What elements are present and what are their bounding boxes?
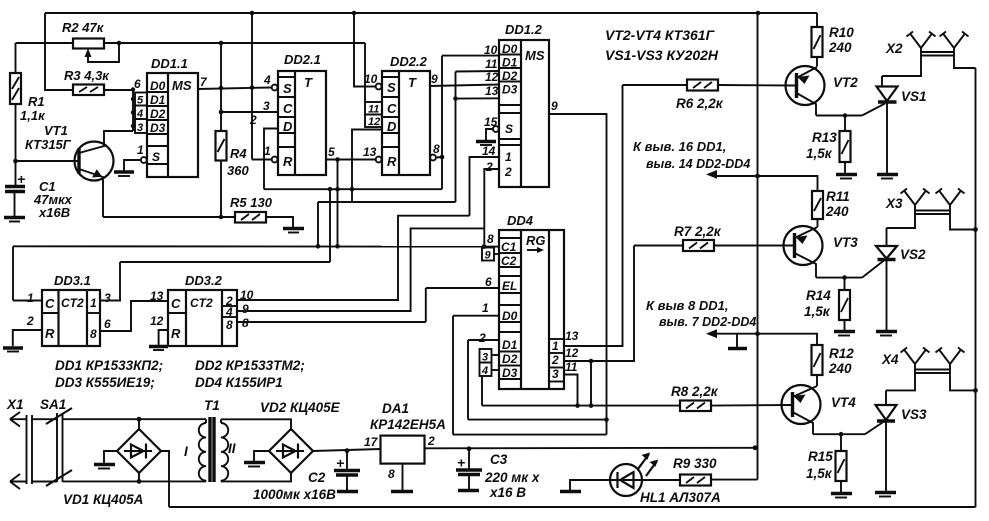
resistor R11 240 [812, 191, 823, 227]
resistor R14 1.5k [839, 278, 850, 330]
svg-text:C: C [387, 101, 397, 116]
pin 1 DD2.1 [264, 144, 278, 162]
svg-text:T: T [408, 75, 417, 90]
node: VD1 bottom tap [137, 479, 142, 484]
svg-text:1: 1 [264, 144, 271, 158]
pin 8 DD4 [487, 232, 494, 246]
pin 3 box DD1.1 [135, 119, 147, 134]
svg-text:D: D [283, 119, 293, 134]
svg-text:X1: X1 [6, 397, 24, 412]
node: C2 tap [345, 448, 350, 453]
svg-text:9: 9 [242, 302, 249, 316]
svg-text:10: 10 [484, 43, 498, 57]
svg-text:R: R [387, 154, 397, 169]
svg-text:11: 11 [485, 57, 498, 71]
ground: R14 [834, 332, 855, 336]
node: out2 junction [589, 359, 594, 364]
svg-text:6: 6 [485, 275, 492, 289]
svg-text:1: 1 [27, 291, 34, 305]
wire: clock bus into C1 [482, 244, 499, 249]
LED HL1 [610, 453, 658, 497]
svg-text:R: R [283, 154, 293, 169]
svg-text:R: R [171, 326, 181, 341]
svg-text:R15: R15 [808, 449, 833, 464]
svg-text:D1: D1 [502, 56, 518, 70]
svg-text:+: + [457, 455, 465, 471]
svg-text:DD3.1: DD3.1 [54, 273, 91, 288]
label DA1 [370, 401, 446, 432]
svg-text:360: 360 [227, 163, 249, 178]
wire: x252 pullup vertical [252, 13, 272, 160]
svg-text:C: C [171, 296, 181, 311]
svg-text:C2: C2 [501, 254, 517, 268]
svg-text:CT2: CT2 [61, 296, 84, 310]
wire: R2 line y43 [16, 42, 366, 44]
svg-text:R13: R13 [812, 130, 837, 145]
wire: right edge vertical [975, 68, 977, 507]
svg-text:2: 2 [478, 331, 486, 345]
pin 5 DD2.1 output [326, 145, 376, 160]
svg-text:х16 В: х16 В [489, 485, 526, 500]
pin 3 DD3.1 out [100, 262, 120, 305]
svg-text:R5 130: R5 130 [230, 195, 273, 210]
svg-text:I: I [184, 444, 188, 459]
svg-text:T1: T1 [204, 398, 220, 413]
label VD2 [260, 400, 341, 415]
label C2 [253, 470, 336, 502]
wire: D1 loop y420 [468, 419, 607, 421]
svg-text:D0: D0 [502, 309, 518, 323]
svg-text:12: 12 [485, 70, 499, 84]
label DD1 type [55, 358, 163, 373]
wire: VT3 collector line [816, 260, 885, 278]
label R7 [674, 224, 722, 239]
node: out9 net crossing [604, 417, 609, 422]
svg-text:9: 9 [431, 72, 438, 86]
pin 6 DD3.1 out [100, 301, 168, 331]
pin 14 DD1.2 [470, 144, 500, 216]
svg-text:CT2: CT2 [190, 296, 213, 310]
label R6 [676, 96, 724, 111]
node: bus x318 [316, 244, 321, 249]
pin 1 DD3.1 [13, 291, 42, 305]
svg-text:RG: RG [526, 233, 546, 248]
svg-text:C3: C3 [490, 452, 508, 467]
svg-text:R8 2,2к: R8 2,2к [671, 384, 719, 399]
svg-text:13: 13 [150, 289, 164, 303]
flip-flop DD2.1 [278, 71, 326, 175]
pin 1 DD1.1 S input [124, 143, 147, 171]
transistor VT2 [786, 66, 825, 116]
connector X1 [6, 397, 32, 489]
svg-text:C: C [45, 296, 55, 311]
svg-text:HL1 АЛ307А: HL1 АЛ307А [640, 490, 721, 505]
svg-text:DD2 КР1533ТМ2;: DD2 КР1533ТМ2; [195, 358, 305, 373]
svg-text:240: 240 [828, 40, 852, 55]
svg-text:14: 14 [482, 144, 496, 158]
ground: DD3.1 R [3, 348, 23, 352]
ground: DD1.2 S [476, 142, 496, 146]
node: pin7/x221 [219, 86, 224, 91]
svg-text:SA1: SA1 [40, 397, 66, 412]
svg-text:DD2.1: DD2.1 [284, 52, 321, 67]
node: R14 tap [842, 275, 847, 280]
pin 12 box DD2.2 [365, 115, 382, 129]
label R15 [806, 449, 833, 481]
pin 6 DD1.1 [134, 77, 141, 91]
svg-text:D1: D1 [502, 338, 518, 352]
label VT2-VT4 type [605, 27, 716, 43]
node: pin7/x252 [250, 85, 255, 90]
svg-text:3: 3 [137, 122, 143, 134]
label VS2 [900, 247, 926, 262]
resistor R6 2.2k [623, 80, 797, 91]
pin 2 DD4 D1 [468, 331, 499, 420]
svg-text:2: 2 [427, 434, 435, 448]
svg-text:R10: R10 [829, 25, 854, 40]
pin 3 DD2.1 [263, 99, 270, 113]
pin 4 box DD1.1 [135, 106, 147, 121]
label K vyv16 line1 [633, 139, 726, 154]
svg-text:2: 2 [485, 160, 493, 174]
wire: vertical x221 feedback [220, 43, 222, 131]
wire: D1/D3 vertical x455 [453, 71, 499, 202]
capacitor C1 47uF [5, 171, 25, 216]
resistor R5 130 [235, 212, 293, 227]
svg-text:D: D [387, 119, 397, 134]
wire: y202 segment [318, 202, 456, 246]
wire: rail left drop to R3 [45, 13, 73, 90]
label DD2 type [195, 358, 305, 373]
pin 7 DD1.1 output [198, 75, 272, 89]
svg-text:1: 1 [482, 301, 489, 315]
pin 12 DD4 out2 [564, 246, 634, 362]
wire: arrow feed y334 [706, 329, 817, 345]
svg-text:R6 2,2к: R6 2,2к [676, 96, 724, 111]
label DD3 type [55, 375, 155, 390]
label R4 360 [227, 146, 249, 178]
pin 8 DD3.2 out [237, 316, 426, 330]
svg-text:VT3: VT3 [833, 235, 858, 250]
svg-text:17: 17 [364, 435, 379, 449]
label DD4 [507, 213, 534, 228]
svg-text:2: 2 [551, 353, 559, 367]
svg-text:R11: R11 [826, 189, 850, 204]
svg-text:выв. 7 DD2-DD4: выв. 7 DD2-DD4 [659, 315, 756, 329]
svg-text:3: 3 [104, 291, 111, 305]
pin 9 DD3.2 out [237, 228, 484, 316]
svg-text:240: 240 [825, 204, 849, 219]
svg-text:S: S [152, 150, 160, 164]
label HL1 [640, 490, 721, 505]
label VT3 [833, 235, 858, 250]
label DD2.2 [390, 54, 428, 69]
ground: VS1 [877, 175, 898, 179]
svg-text:DD4: DD4 [507, 213, 534, 228]
label VT2 [833, 75, 858, 90]
svg-text:13: 13 [363, 145, 377, 159]
svg-text:1,5к: 1,5к [806, 466, 833, 481]
svg-text:12: 12 [150, 314, 164, 328]
svg-text:R9 330: R9 330 [673, 456, 717, 471]
pin 2 DD1.2 [484, 160, 499, 228]
svg-text:C1: C1 [501, 240, 517, 254]
node: y189 x337 [335, 187, 340, 192]
wire: D-net line y189 [264, 188, 442, 190]
node: wiper junction [117, 41, 122, 46]
label DD4 type [195, 375, 283, 390]
pin 9 DD2.2 output [430, 72, 499, 86]
svg-text:VT2: VT2 [833, 75, 858, 90]
pin 12 DD3.2 [150, 314, 168, 345]
svg-text:S: S [505, 122, 513, 136]
svg-text:VD2 КЦ405Е: VD2 КЦ405Е [260, 400, 341, 415]
svg-text:1,5к: 1,5к [806, 146, 833, 161]
svg-text:DD1.1: DD1.1 [151, 56, 188, 71]
svg-text:220 мк х: 220 мк х [484, 470, 540, 485]
transistor VT1 KT315G [16, 131, 134, 217]
node: R15 tap [839, 432, 844, 437]
node: rail junction x252 [250, 11, 255, 16]
resistor R2 47k (potentiometer) [73, 39, 119, 63]
svg-text:2: 2 [26, 314, 34, 328]
wire: +5V top rail [45, 12, 817, 14]
svg-text:R14: R14 [806, 288, 831, 303]
multiplexer DD1.2 [499, 40, 549, 187]
svg-text:11: 11 [565, 360, 578, 374]
wire: input bus DD1.1 [131, 87, 135, 131]
node: X4 return [973, 388, 978, 393]
label K vyv8 line2 [659, 315, 756, 329]
wire: bottom power rail [169, 506, 976, 508]
label R2 47k [62, 20, 105, 35]
svg-text:X2: X2 [885, 41, 903, 56]
flip-flop DD2.2 [382, 71, 430, 175]
pin 2 DD2.1 [249, 113, 257, 127]
resistor R10 240 [812, 13, 823, 67]
resistor R3 4.3k [73, 85, 133, 96]
wire: out8 vertical to D0 DD1.2 [442, 56, 499, 190]
svg-text:DA1: DA1 [382, 401, 409, 416]
svg-text:S: S [283, 81, 292, 96]
resistor R13 1.5k [840, 116, 851, 175]
svg-text:D0: D0 [150, 79, 166, 93]
svg-text:КР142ЕН5А: КР142ЕН5А [370, 417, 446, 432]
counter DD3.1 [42, 290, 100, 346]
svg-text:DD1.2: DD1.2 [505, 22, 543, 37]
pin 6 DD4 EL [426, 275, 499, 322]
node: +5 feed junction [753, 445, 758, 450]
svg-text:8: 8 [242, 316, 249, 330]
svg-text:VS3: VS3 [901, 407, 927, 422]
switch SA1 [32, 397, 206, 486]
pin 4 DD2.1 [263, 73, 278, 90]
node: rail junction x354 [352, 11, 357, 16]
wire: secondary bottom [221, 473, 291, 481]
node: +5 vert y174 [755, 174, 760, 179]
wire: bus B y262 [120, 189, 330, 262]
label VS1 [901, 89, 927, 104]
label K vyv16 line2 [646, 157, 750, 171]
node: y189 x330 [328, 187, 333, 192]
label R13 [806, 130, 837, 161]
svg-text:DD3.2: DD3.2 [185, 273, 223, 288]
svg-text:1: 1 [90, 296, 97, 310]
svg-text:2: 2 [504, 165, 512, 179]
resistor R15 1.5k [836, 434, 847, 492]
svg-text:2: 2 [249, 113, 257, 127]
transistor VT3 [784, 226, 823, 278]
svg-text:4: 4 [481, 365, 488, 377]
svg-text:1: 1 [505, 150, 512, 164]
ground: DD1.1 S [114, 172, 134, 176]
svg-text:4: 4 [225, 305, 233, 319]
label K vyv8 line1 [646, 298, 728, 313]
wire: D input DD2.2 [352, 130, 382, 203]
pin 11 box DD2.2 [365, 102, 382, 116]
label DD1.1 [151, 56, 188, 71]
label C3 [484, 452, 540, 500]
pin 10 DD2.2 [364, 72, 382, 89]
label VS3 [901, 407, 927, 422]
svg-text:13: 13 [565, 329, 579, 343]
label R14 [804, 288, 831, 319]
svg-text:D3: D3 [502, 83, 518, 97]
svg-text:3: 3 [552, 367, 559, 381]
svg-text:VS1-VS3 КУ202Н: VS1-VS3 КУ202Н [605, 47, 719, 63]
svg-text:VS2: VS2 [900, 247, 926, 262]
wire: out2 drop to loop [589, 361, 594, 408]
node: rail junction x758 [756, 11, 761, 16]
capacitor C3 220uF [456, 449, 482, 489]
svg-text:+: + [17, 171, 25, 187]
ground: VS2 [876, 332, 897, 336]
svg-text:D0: D0 [502, 42, 518, 56]
svg-text:D2: D2 [502, 69, 518, 83]
svg-text:R7 2,2к: R7 2,2к [674, 224, 722, 239]
svg-text:R3 4,3к: R3 4,3к [64, 68, 110, 83]
pin 1 DD4 D0 [453, 301, 499, 435]
resistor R8 2.2k [680, 401, 792, 412]
pin 5 box DD1.1 [135, 93, 147, 107]
bridge rectifier VD2 [254, 429, 381, 473]
wire: +5 arrow feed y174 [706, 170, 818, 191]
svg-text:VT1: VT1 [44, 123, 68, 138]
svg-text:9: 9 [485, 250, 492, 262]
svg-text:К выв. 16 DD1,: К выв. 16 DD1, [633, 139, 726, 154]
svg-text:1,1к: 1,1к [20, 108, 46, 123]
label VT4 [831, 395, 856, 410]
svg-text:DD4 К155ИР1: DD4 К155ИР1 [195, 375, 283, 390]
svg-text:1000мк х16В: 1000мк х16В [253, 487, 336, 502]
label R8 [671, 384, 719, 399]
thyristor VS1 [877, 76, 898, 173]
node: R13 tap [843, 113, 848, 118]
resistor R7 2.2k [634, 240, 794, 251]
transformer T1 [184, 398, 236, 482]
pin 13 DD2.2 [363, 145, 382, 162]
label DD2.1 [284, 52, 321, 67]
svg-text:R4: R4 [230, 146, 247, 161]
wire: HL1 cathode to ground [570, 480, 610, 490]
ground: C1 [4, 218, 25, 222]
ground: C2 [337, 490, 358, 493]
regulator DA1 KR142EN5A [364, 434, 755, 490]
svg-text:1,5к: 1,5к [804, 304, 831, 319]
svg-text:8: 8 [226, 318, 233, 332]
node: vert y334 [755, 331, 760, 336]
svg-text:DD2.2: DD2.2 [390, 54, 428, 69]
node: out3 to R8 net [575, 403, 580, 408]
svg-text:II: II [228, 441, 236, 456]
transistor VT4 [782, 385, 821, 434]
pin 12 DD1.2 [485, 70, 499, 84]
pin 11 DD4 out3 [564, 360, 578, 406]
ground: VS3 [875, 493, 896, 497]
resistor R9 330 [641, 475, 712, 486]
svg-text:MS: MS [525, 48, 545, 63]
svg-text:R1: R1 [28, 94, 45, 109]
node: emitter/R4 junction [219, 215, 224, 220]
ground: HL1 [560, 490, 581, 493]
svg-text:8: 8 [388, 467, 395, 481]
svg-text:К выв 8 DD1,: К выв 8 DD1, [646, 298, 728, 313]
svg-text:1: 1 [137, 143, 144, 157]
svg-text:4: 4 [263, 73, 271, 87]
label VT1 KT315G [25, 123, 72, 152]
ground: R5 [283, 229, 304, 233]
svg-text:T: T [304, 75, 313, 90]
pin 13 DD1.2 [485, 84, 499, 98]
thyristor VS3 [876, 390, 897, 491]
multiplexer DD1.1 [147, 73, 198, 177]
svg-text:VT2-VT4 КТ361Г: VT2-VT4 КТ361Г [605, 27, 716, 43]
svg-text:D3: D3 [150, 121, 166, 135]
label R12 [828, 346, 854, 376]
resistor R4 360 [216, 131, 227, 217]
svg-text:6: 6 [104, 317, 111, 331]
ground: C3 [458, 489, 479, 492]
pin 15 DD1.2 S [484, 115, 499, 140]
svg-text:13: 13 [485, 84, 499, 98]
ground: R15 [831, 494, 852, 498]
ground: VD1 [94, 465, 115, 469]
wire: clock bus drop to DD3.1 C [12, 246, 14, 300]
connector X3 [885, 189, 976, 230]
svg-text:VT4: VT4 [831, 395, 856, 410]
bridge rectifier VD1 [104, 419, 169, 507]
svg-text:VD1 КЦ405А: VD1 КЦ405А [63, 492, 143, 507]
node: out5 junction [335, 157, 340, 162]
pin 13 DD4 out1 [564, 85, 623, 346]
svg-text:КТ315Г: КТ315Г [25, 137, 72, 152]
label DD3.1 [54, 273, 91, 288]
svg-text:D2: D2 [502, 352, 518, 366]
svg-text:12: 12 [565, 346, 579, 360]
svg-text:9: 9 [551, 99, 558, 113]
svg-text:240: 240 [828, 361, 852, 376]
label DD1.2 [505, 22, 543, 37]
svg-text:+: + [336, 455, 344, 471]
svg-text:3: 3 [263, 99, 270, 113]
capacitor C2 1000uF [334, 451, 360, 490]
wire: clock bus y246 [13, 245, 484, 247]
wire: +5 down to R9 branch [711, 479, 758, 481]
label VD1 [63, 492, 143, 507]
node: C line junction [219, 110, 224, 115]
wire: to DD2.1 C [221, 111, 278, 113]
resistor R1 1.1k [10, 43, 21, 185]
